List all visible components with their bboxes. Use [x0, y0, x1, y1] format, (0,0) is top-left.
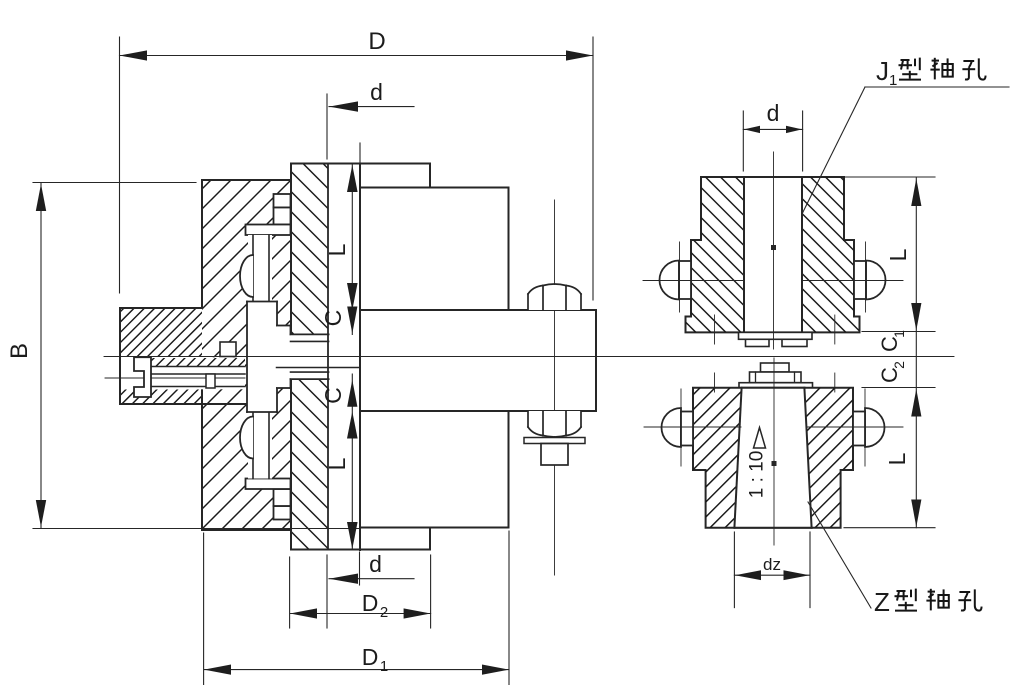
svg-text:dz: dz: [763, 555, 781, 574]
L top arrows: [347, 165, 358, 192]
J1 right pin bump: [866, 261, 886, 300]
Z left pin bump: [662, 408, 682, 447]
J1 right pin washer: [854, 261, 866, 299]
J1 bore (white): [744, 176, 802, 332]
Z right pin bump: [865, 408, 885, 447]
svg-text:B: B: [6, 343, 33, 359]
pin neck: [274, 208, 291, 225]
right flange outline: [291, 164, 430, 550]
interface disc: [291, 334, 329, 356]
Z pin centerlines: [644, 373, 903, 466]
right flange body (hatched): [291, 164, 328, 550]
svg-text:L: L: [884, 452, 910, 465]
dim D line: [120, 55, 594, 57]
svg-text:d: d: [369, 551, 382, 577]
d top arrow: [329, 101, 358, 111]
Z L dimension: [844, 357, 935, 528]
D1 arrows: [204, 665, 231, 675]
set screw collar: [206, 374, 215, 388]
label Z型轴孔 with leader: [808, 502, 871, 608]
Z bolt hole ticks: [714, 373, 716, 392]
dim B line: [40, 183, 42, 528]
left flange outline: [202, 164, 291, 550]
Z left pin washer: [681, 412, 693, 446]
dim D1 extension lines: [203, 533, 205, 685]
screw detail zone below axis (white): [121, 357, 245, 389]
J1 pin centerlines: [643, 242, 903, 344]
Z right pin washer: [853, 412, 865, 446]
Z bore centerline: [773, 358, 775, 545]
bolt end block: [541, 444, 568, 466]
shaft middle band: [360, 310, 596, 411]
svg-text:1: 1: [891, 330, 907, 338]
right hub bottom: [360, 411, 509, 550]
right hub top step: [360, 164, 509, 311]
svg-text:C: C: [320, 310, 346, 327]
svg-text:1 : 10: 1 : 10: [747, 451, 768, 499]
D arrows: [120, 50, 148, 60]
C top arrow: [347, 307, 357, 334]
dim d top extension: [326, 94, 328, 159]
svg-text:D: D: [362, 644, 379, 670]
svg-text:C: C: [320, 387, 346, 404]
Z dz dimension: [734, 532, 810, 608]
left hub band (hatched): [120, 308, 202, 357]
Z hub body (hatched): [693, 388, 853, 528]
svg-text:d: d: [767, 100, 780, 126]
set screw axis centerline: [105, 377, 245, 379]
pin assembly (bottom, mirrored): [240, 357, 329, 520]
svg-text:L: L: [324, 243, 350, 256]
svg-text:L: L: [324, 457, 350, 470]
dim D2 extension lines: [289, 557, 291, 628]
C bottom arrow: [347, 380, 357, 407]
L bottom arrows: [347, 412, 358, 439]
left hub outline: [120, 308, 246, 404]
svg-text:D: D: [368, 28, 385, 55]
main axis centerline: [104, 356, 954, 358]
labels left view: [6, 28, 388, 675]
J1 bottom hub tabs: [739, 332, 813, 339]
dim D extension lines: [119, 37, 121, 293]
left flange / brake wheel body (hatched): [202, 180, 291, 530]
J1 bore centerline: [773, 152, 775, 349]
hatch strip above set screw: [151, 358, 245, 367]
svg-text:1: 1: [380, 658, 388, 675]
dim d bottom extension: [326, 555, 328, 628]
svg-text:D: D: [362, 590, 379, 616]
clamp bolt bottom nut (mirror): [528, 411, 581, 437]
clamp bolt top nut: [528, 284, 581, 310]
svg-text:J: J: [876, 56, 889, 86]
pin boss column: [247, 302, 277, 357]
svg-text:L: L: [885, 248, 911, 261]
pin boss step: [277, 326, 291, 357]
svg-text:2: 2: [891, 361, 907, 369]
set screw slotted head: [134, 357, 151, 397]
svg-text:d: d: [370, 79, 383, 105]
J1 left pin washer: [679, 261, 691, 299]
Z tapered bore (white): [734, 388, 811, 528]
J1 bolt hole ticks: [714, 315, 716, 344]
svg-text:Z: Z: [874, 587, 890, 617]
pin washer: [246, 225, 291, 236]
dim L top line: [351, 165, 353, 335]
right hub left edge: [359, 164, 361, 551]
Z top hub tabs: [761, 363, 790, 372]
J1 L dimension: [844, 177, 935, 357]
svg-text:2: 2: [380, 604, 388, 621]
D2 arrows: [290, 608, 317, 618]
taper symbol: [754, 428, 766, 449]
elastic sleeve bulge: [240, 255, 253, 297]
B arrows: [36, 184, 46, 211]
pin nut: [274, 194, 291, 208]
set screw rod lines: [151, 367, 245, 387]
d bottom arrow: [329, 574, 358, 584]
J1 d dimension: [743, 111, 802, 171]
shaft end face line: [277, 367, 361, 369]
clamp bolt centerline: [554, 200, 556, 575]
pin assembly (top, inside flange): [240, 194, 329, 357]
J1 left pin bump: [660, 261, 679, 300]
pin shaft channel: [248, 235, 272, 302]
right flange bore edge line: [327, 164, 329, 550]
dim C bottom / L bottom line: [351, 374, 353, 550]
bolt washer: [524, 438, 585, 444]
dim B extension lines: [33, 182, 196, 184]
left hub band bottom strip (hatched): [120, 390, 202, 405]
key square on hub: [220, 342, 236, 357]
arrows left view: [36, 50, 593, 674]
J1 hub body (hatched): [686, 177, 860, 332]
